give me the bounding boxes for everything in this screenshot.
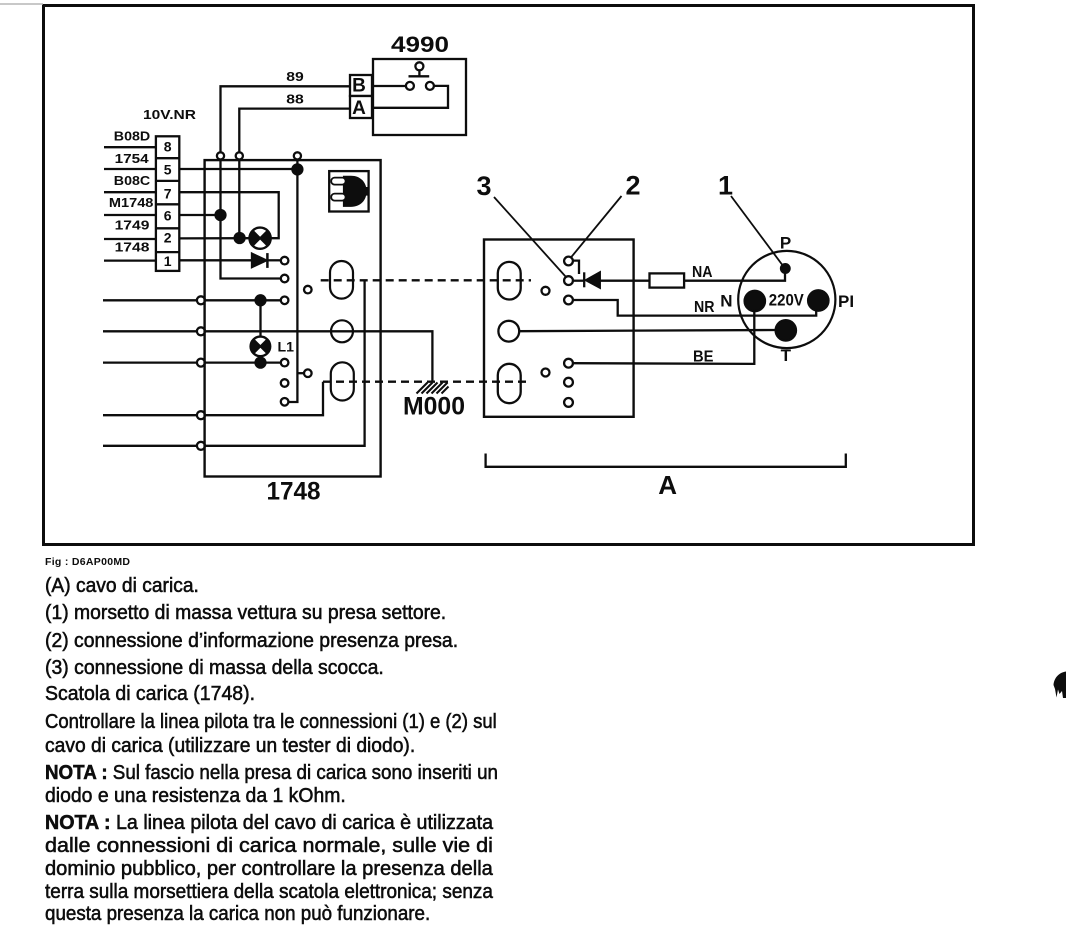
svg-text:8: 8 bbox=[164, 139, 172, 155]
svg-text:NR: NR bbox=[694, 299, 715, 316]
wire 1754 pin5 bbox=[104, 168, 156, 170]
svg-text:1749: 1749 bbox=[115, 218, 150, 232]
oval lower (A) bbox=[498, 364, 521, 403]
terminal circle spare1 bbox=[564, 378, 573, 387]
terminal circle row2 bbox=[197, 327, 205, 335]
border frame bbox=[44, 6, 974, 545]
svg-text:3: 3 bbox=[476, 171, 491, 201]
lamp L1 bbox=[251, 300, 271, 362]
wire 88 bbox=[239, 109, 350, 153]
svg-text:A: A bbox=[352, 98, 366, 119]
ink blob page edge bbox=[1054, 672, 1066, 699]
diode D1 bbox=[252, 253, 268, 268]
bracket A bbox=[486, 454, 846, 467]
terminal circle pin1 bbox=[281, 257, 289, 265]
leader line 3 bbox=[494, 197, 566, 277]
svg-text:1748: 1748 bbox=[267, 478, 321, 506]
caption line nota2 a bbox=[45, 811, 493, 834]
wire pin7 loop to lamp right bbox=[179, 192, 278, 238]
caption line nota2 b bbox=[45, 834, 493, 857]
svg-text:5: 5 bbox=[164, 162, 172, 178]
junction 89/pin6 bbox=[216, 210, 226, 220]
wire row2 to ground bbox=[205, 331, 433, 381]
caption line nota1 b bbox=[45, 784, 346, 807]
svg-text:7: 7 bbox=[164, 186, 172, 202]
oval upper (A) bbox=[498, 262, 521, 300]
terminal circle row1 bbox=[197, 296, 205, 304]
terminal circle row1 right bbox=[281, 297, 289, 305]
wire diode out bbox=[267, 259, 281, 261]
ground M000 bbox=[417, 383, 449, 394]
box 4990 bbox=[373, 59, 466, 135]
svg-text:N: N bbox=[720, 292, 732, 311]
test circle bbox=[304, 286, 312, 294]
svg-text:M000: M000 bbox=[403, 393, 465, 421]
svg-text:B08C: B08C bbox=[114, 174, 150, 188]
wire row5 to pilot vertical bbox=[205, 281, 365, 446]
wire row4 to dashed bbox=[205, 382, 323, 416]
wire pin2 to lamp bbox=[179, 237, 249, 239]
svg-text:T: T bbox=[781, 346, 792, 365]
terminal circle row3 bbox=[197, 359, 205, 367]
test circle bbox=[542, 369, 550, 377]
junction pin5/pilot bbox=[292, 164, 302, 174]
pin N bbox=[745, 291, 765, 311]
junction 88/pin2 bbox=[235, 233, 245, 243]
svg-text:M1748: M1748 bbox=[109, 196, 154, 210]
terminal circle dashed row bbox=[281, 379, 289, 387]
page top edge artifact bbox=[0, 3, 43, 5]
plug icon box bbox=[329, 171, 368, 211]
terminal circle (top of 1748 box, wire 88) bbox=[236, 152, 243, 159]
svg-text:1748: 1748 bbox=[115, 240, 150, 254]
socket circle (presa 220V) bbox=[738, 251, 835, 348]
junction row3/lamp L1 bbox=[256, 358, 266, 368]
wire 89 bbox=[221, 86, 351, 152]
caption line nota2 c bbox=[45, 857, 493, 880]
svg-text:NA: NA bbox=[692, 264, 713, 281]
leader line 1 bbox=[731, 196, 784, 267]
svg-text:2: 2 bbox=[625, 171, 640, 201]
terminal circle row4 bbox=[197, 411, 205, 419]
wire B to switch bbox=[372, 85, 406, 87]
test circle bbox=[304, 369, 312, 377]
wire diode to resistor bbox=[600, 280, 650, 282]
svg-text:1754: 1754 bbox=[115, 152, 149, 166]
wire 1748 pin1 bbox=[104, 259, 156, 261]
wire row4 left bbox=[103, 414, 197, 416]
svg-text:6: 6 bbox=[164, 208, 172, 224]
terminal circle (top of 1748 box, wire 89) bbox=[217, 152, 224, 159]
wire BE bbox=[573, 311, 754, 364]
svg-text:1: 1 bbox=[718, 171, 733, 201]
wire 88 continuation down bbox=[238, 160, 240, 239]
svg-text:B: B bbox=[352, 76, 366, 97]
terminal circle row3 right bbox=[281, 359, 289, 367]
caption line nota1 a bbox=[45, 761, 498, 784]
wire pin1 bbox=[179, 259, 252, 261]
round mid (A) bbox=[498, 321, 519, 342]
wire 89 continuation down bbox=[221, 160, 282, 279]
test circle bbox=[542, 287, 550, 295]
resistor R1 bbox=[650, 273, 685, 287]
pin PI bbox=[808, 290, 828, 310]
svg-text:PI: PI bbox=[838, 292, 854, 311]
junction row1/lamp L1 bbox=[256, 295, 266, 305]
svg-text:10V.NR: 10V.NR bbox=[143, 108, 196, 122]
svg-text:L1: L1 bbox=[278, 339, 295, 355]
terminal circle (top of 1748 box, pilot) bbox=[294, 152, 301, 159]
diode D2 bbox=[573, 280, 584, 282]
terminal circle BE bbox=[564, 359, 573, 368]
contact P bbox=[781, 264, 790, 273]
dashed ground line lower bbox=[323, 381, 531, 383]
terminal B bbox=[350, 75, 372, 96]
middle connector box A bbox=[484, 240, 634, 417]
terminal circle row89 bbox=[281, 275, 289, 283]
terminal circle row5 bbox=[197, 442, 205, 450]
caption line 3 bbox=[45, 656, 384, 679]
wire pilot vertical bbox=[288, 160, 297, 403]
caption line A bbox=[45, 574, 199, 597]
oval connector lower (1748) bbox=[331, 362, 354, 400]
terminal A bbox=[350, 96, 372, 118]
pin T bbox=[776, 320, 796, 340]
wire B08C pin7 bbox=[104, 191, 156, 193]
connector pin block bbox=[156, 136, 179, 271]
svg-text:P: P bbox=[780, 234, 791, 253]
wire pin6 bbox=[179, 214, 220, 216]
caption line nota2 d bbox=[45, 880, 493, 903]
caption line controllare 1 bbox=[45, 710, 497, 733]
terminal circle spare2 bbox=[564, 398, 573, 407]
wire row3 left bbox=[103, 361, 197, 363]
svg-text:220V: 220V bbox=[769, 291, 805, 310]
wire row2 left bbox=[103, 330, 197, 332]
wire row1 inner bbox=[205, 299, 281, 301]
wire pin5 to pilot node bbox=[179, 168, 297, 170]
svg-text:B08D: B08D bbox=[114, 129, 150, 143]
svg-text:A: A bbox=[658, 470, 677, 500]
wire row3 inner bbox=[205, 361, 281, 363]
plug icon bbox=[331, 176, 369, 207]
svg-text:89: 89 bbox=[286, 69, 304, 84]
oval connector upper (1748) bbox=[330, 261, 353, 299]
figure caption bbox=[45, 556, 130, 568]
caption line 2 bbox=[45, 629, 458, 652]
wire NR bbox=[573, 300, 816, 316]
leader line 2 bbox=[571, 196, 622, 258]
terminal circle 2 bbox=[564, 257, 573, 266]
dashed pilot line upper bbox=[321, 279, 531, 281]
stub on terminal 2 bbox=[573, 261, 579, 274]
caption line nota2 e bbox=[45, 902, 430, 925]
caption line 1 bbox=[45, 601, 446, 624]
svg-text:2: 2 bbox=[164, 230, 172, 246]
test circle bbox=[281, 398, 289, 406]
wire B08D pin8 bbox=[104, 146, 156, 148]
wire switch to A bbox=[372, 86, 448, 108]
wire row1 left bbox=[103, 299, 197, 301]
wire row5 left bbox=[103, 445, 197, 447]
svg-text:1: 1 bbox=[164, 253, 172, 269]
wire T bbox=[519, 330, 776, 331]
svg-text:BE: BE bbox=[693, 348, 714, 365]
switch S1 in 4990 bbox=[415, 62, 423, 70]
lamp (upper) bbox=[249, 228, 270, 249]
terminal circle NR bbox=[564, 296, 573, 305]
wire 1749 pin2 bbox=[104, 238, 156, 240]
caption line scatola bbox=[45, 682, 255, 705]
svg-text:88: 88 bbox=[286, 91, 304, 106]
wire jog to test circle bbox=[297, 372, 304, 374]
svg-text:4990: 4990 bbox=[391, 32, 449, 57]
wire M1748 pin6 bbox=[104, 214, 156, 216]
terminal circle 3 bbox=[564, 276, 573, 285]
box 1748 bbox=[205, 160, 381, 476]
round connector mid (1748) bbox=[331, 320, 353, 342]
wire NA bbox=[684, 273, 785, 281]
caption line controllare 2 bbox=[45, 734, 415, 757]
